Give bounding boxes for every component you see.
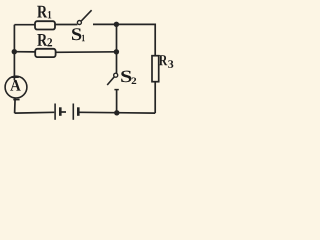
battery cell 2 short plate	[77, 107, 80, 116]
node junction dot: top rail / S2 column	[114, 22, 119, 27]
switch S1 blade	[81, 10, 91, 21]
node junction dot: R2 branch / S2 column	[114, 49, 119, 54]
wire: bottom rail right segment (battery to bottom-right corner)	[79, 111, 155, 114]
ammeter top terminal tick	[11, 76, 19, 78]
label R2 subscript 2	[47, 38, 52, 46]
label S1 subscript 1	[82, 35, 85, 42]
switch S2 lower terminal tick	[114, 89, 118, 91]
battery cell 1 short plate	[59, 107, 62, 116]
ammeter circle	[5, 76, 27, 98]
resistor R3 (vertical)	[152, 56, 159, 82]
label R3 subscript 3	[168, 60, 173, 68]
resistor R1	[35, 21, 55, 29]
ammeter bottom terminal tick	[13, 99, 19, 101]
wire: R2 branch from left junction to R2 box	[14, 51, 35, 53]
label S1 "S"	[72, 28, 81, 40]
wire: R2 box to S2 vertical junction	[56, 51, 117, 54]
label R1 subscript 1	[48, 11, 51, 18]
node junction dot: left rail / R2 branch	[12, 49, 17, 54]
wire: bottom rail left segment (corner to battery)	[15, 111, 55, 114]
label S2 "S"	[121, 71, 131, 83]
wire: top rail from top-left corner to R1	[14, 24, 35, 26]
wire: right vertical below R3 to bottom-right corner	[154, 82, 156, 113]
switch S2 blade	[107, 77, 114, 85]
battery cell 2 long plate	[72, 104, 74, 120]
wire: battery inter-cell stub	[61, 111, 66, 113]
ammeter letter A	[10, 80, 21, 91]
wire: R1 to switch S1	[55, 24, 78, 26]
label R2 "R"	[37, 34, 47, 46]
resistor R2	[35, 49, 55, 57]
label S2 subscript 2	[132, 78, 137, 85]
battery cell 1 long plate	[54, 104, 56, 120]
switch S1 contact circle	[77, 21, 81, 25]
wire: S2 vertical from top-rail dot through R2 dot down to switch circle	[116, 24, 118, 73]
wire: S1 right terminal to top-right corner and down to R3	[93, 24, 155, 56]
wire: left vertical from top-left corner down to ammeter	[13, 25, 15, 81]
label R1 "R"	[37, 6, 47, 18]
node junction dot: bottom rail / S2 column	[114, 110, 119, 115]
wire: left vertical below ammeter to bottom-left corner	[14, 98, 17, 113]
label R3 "R"	[159, 55, 168, 65]
switch S2 contact circle	[114, 73, 118, 77]
wire: S2 lower terminal down to bottom rail	[116, 90, 118, 113]
